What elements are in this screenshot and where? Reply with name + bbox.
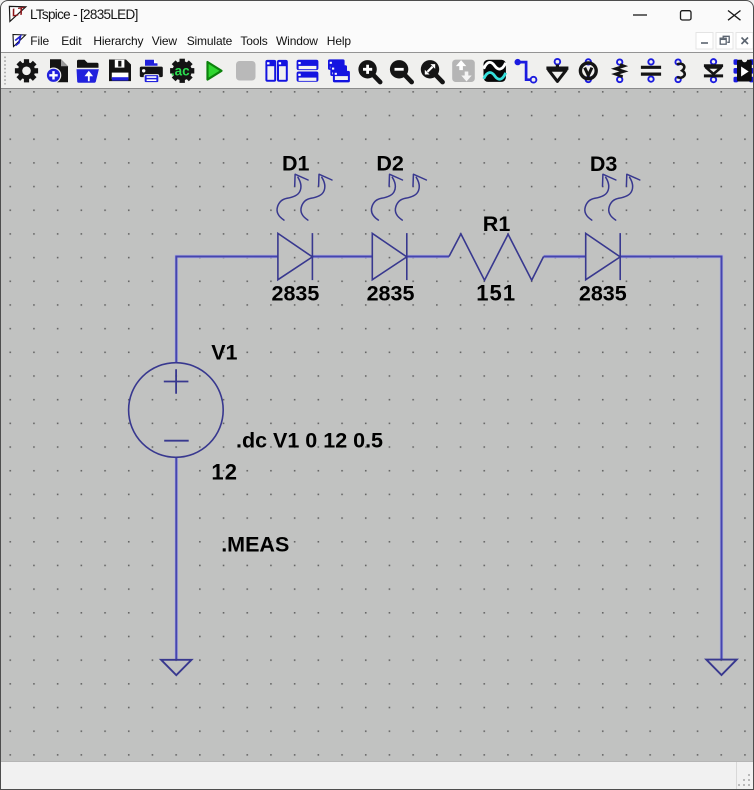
icon: save [109,60,131,82]
toolbar [0,52,754,88]
LED D3 [585,174,640,280]
mini doc icon [11,32,29,51]
svg-text:D1: D1 [282,152,310,176]
wire: D1 cathode to D2 anode [312,256,372,258]
menu bar [0,30,754,52]
icon: place component [734,59,754,82]
mdi child buttons [695,32,754,50]
svg-text:D3: D3 [590,152,618,176]
icon: print [140,59,163,82]
wire: V+ net, top-left corner to D1 anode [176,257,278,364]
schematic text [211,152,627,557]
icon: control panel gear [15,59,38,82]
icon: tile vertically [265,60,287,82]
voltage source V1 [129,363,224,458]
icon: place resistor [615,59,624,82]
ground (right) [706,660,736,675]
LED D1 [277,174,332,280]
svg-text:2835: 2835 [272,281,320,305]
svg-text:V1: V1 [211,340,237,364]
wire: V1 minus down to ground [175,457,177,660]
icon: label net [580,59,596,82]
icon: zoom out [390,60,412,82]
icon: .ac analysis gear [170,59,194,83]
svg-text:12: 12 [211,459,238,484]
resistor R1 [449,234,544,280]
wire: R1 right to D3 anode [544,256,586,258]
title bar [0,0,754,30]
svg-text:D2: D2 [376,152,404,176]
icon: cascade [328,59,350,82]
icon: place diode [704,59,723,82]
icon: open [76,60,100,83]
svg-text:2835: 2835 [367,281,415,305]
wire halo [176,257,721,660]
icon: tile horizontally [297,60,319,82]
status bar [0,761,754,790]
resize grip [736,772,754,790]
icon: pan (disabled) [452,60,475,82]
LED D2 [371,174,426,280]
ground (left) [161,660,191,675]
client area sunken edge [0,88,754,90]
svg-text:.ac: .ac [171,63,190,78]
svg-text:.dc V1 0 12 0.5: .dc V1 0 12 0.5 [236,429,383,453]
wire: D2 cathode to R1 left [408,256,449,258]
svg-text:151: 151 [476,280,516,305]
LTspice app icon [8,5,30,25]
icon: run [208,62,222,80]
icon: draw wire [515,59,537,83]
icon: zoom full extents [421,60,443,82]
icon: place capacitor [641,59,661,82]
icon: waveform viewer [484,60,506,82]
icon: halt (disabled) [236,61,256,81]
icon: place inductor [675,59,684,82]
gripper [4,57,6,85]
icon: new schematic [46,59,68,82]
svg-text:R1: R1 [483,212,511,236]
icon: zoom in [358,60,380,82]
icon: place ground [546,59,568,82]
wire: D3 cathode to right rail and down to ground [621,257,722,660]
svg-text:.MEAS: .MEAS [221,532,289,556]
svg-text:2835: 2835 [579,281,627,305]
window controls [625,0,750,30]
